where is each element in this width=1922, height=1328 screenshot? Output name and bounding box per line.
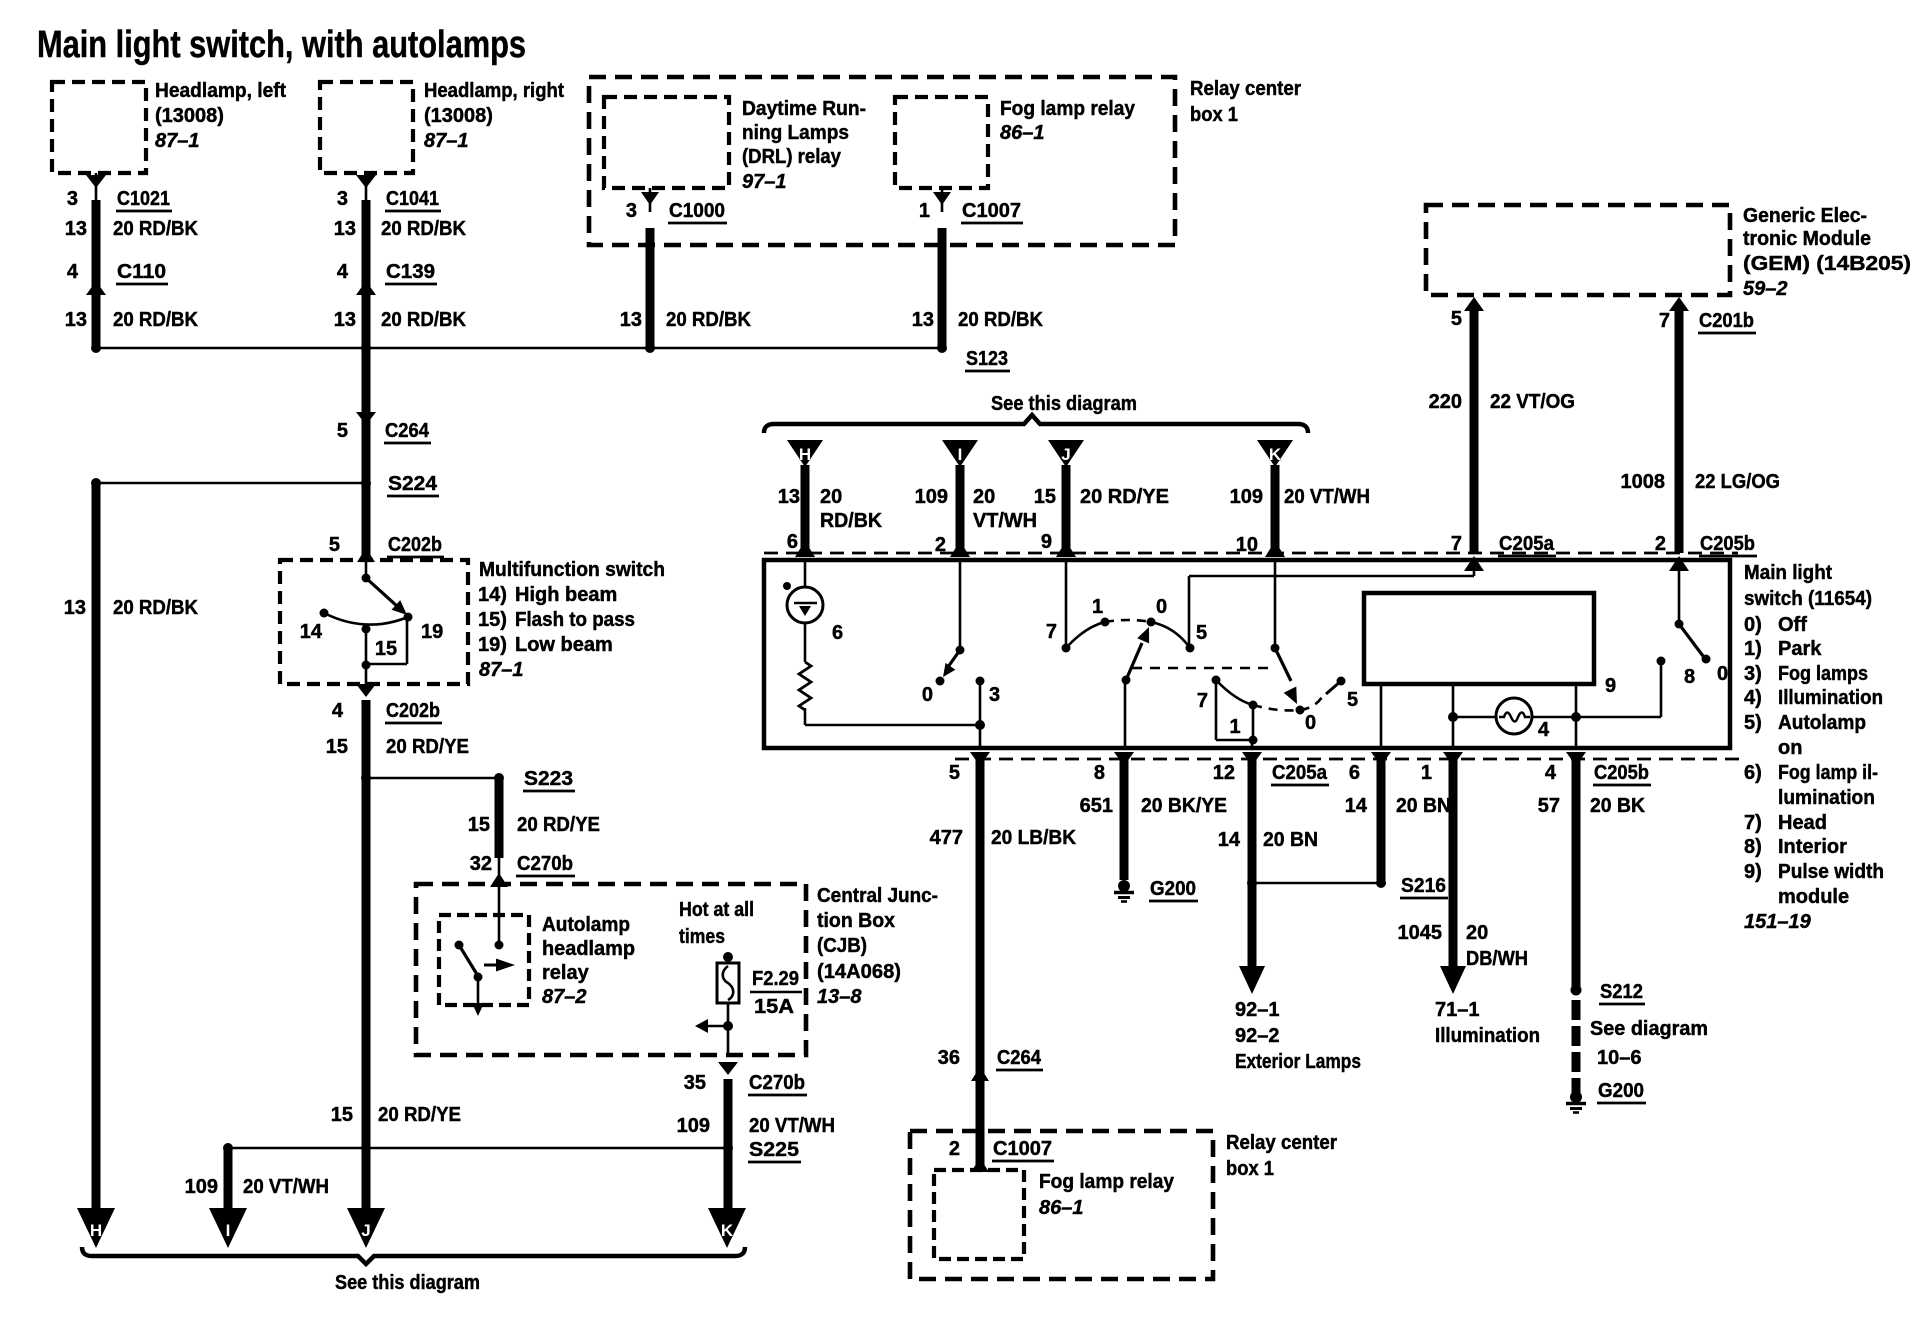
svg-text:Multifunction switch: Multifunction switch	[479, 559, 665, 581]
svg-text:7: 7	[1659, 310, 1670, 332]
svg-text:switch (11654): switch (11654)	[1744, 588, 1872, 610]
svg-text:S224: S224	[388, 473, 438, 495]
svg-text:G200: G200	[1598, 1080, 1644, 1102]
svg-text:22 VT/OG: 22 VT/OG	[1490, 391, 1575, 413]
svg-text:20 VT/WH: 20 VT/WH	[749, 1115, 835, 1137]
svg-text:Exterior Lamps: Exterior Lamps	[1235, 1051, 1361, 1073]
svg-text:(DRL) relay: (DRL) relay	[742, 146, 842, 168]
svg-text:151–19: 151–19	[1744, 911, 1812, 933]
svg-text:5: 5	[329, 534, 340, 556]
svg-text:59–2: 59–2	[1743, 278, 1788, 300]
svg-text:86–1: 86–1	[1000, 122, 1045, 144]
svg-text:Park: Park	[1778, 638, 1822, 660]
svg-text:15): 15)	[478, 609, 507, 631]
svg-text:J: J	[1061, 445, 1070, 464]
svg-text:87–2: 87–2	[542, 986, 587, 1008]
svg-text:H: H	[90, 1221, 102, 1240]
svg-text:1008: 1008	[1621, 471, 1666, 493]
svg-text:J: J	[361, 1221, 370, 1240]
svg-text:Hot at all: Hot at all	[679, 899, 754, 921]
svg-text:20: 20	[973, 486, 995, 508]
svg-text:ning Lamps: ning Lamps	[742, 122, 849, 144]
svg-text:9): 9)	[1744, 861, 1762, 883]
svg-text:13: 13	[778, 486, 800, 508]
svg-text:20: 20	[820, 486, 842, 508]
svg-text:9: 9	[1605, 675, 1616, 697]
svg-text:19): 19)	[478, 634, 507, 656]
svg-text:Daytime Run-: Daytime Run-	[742, 98, 866, 120]
svg-text:15: 15	[375, 638, 397, 660]
svg-text:RD/BK: RD/BK	[820, 510, 883, 532]
svg-text:Relay center: Relay center	[1190, 78, 1301, 100]
svg-text:20 BK/YE: 20 BK/YE	[1141, 795, 1227, 817]
svg-text:20 RD/YE: 20 RD/YE	[1080, 486, 1169, 508]
svg-text:S123: S123	[966, 348, 1008, 370]
svg-text:C201b: C201b	[1699, 310, 1754, 332]
svg-text:14: 14	[300, 621, 323, 643]
svg-text:20 BN: 20 BN	[1396, 795, 1451, 817]
svg-text:Off: Off	[1778, 614, 1807, 636]
svg-text:relay: relay	[542, 962, 590, 984]
svg-text:Head: Head	[1778, 812, 1827, 834]
svg-text:Main light: Main light	[1744, 562, 1832, 584]
svg-text:2: 2	[949, 1138, 960, 1160]
svg-text:19: 19	[421, 621, 443, 643]
svg-text:6: 6	[1349, 762, 1360, 784]
svg-text:57: 57	[1538, 795, 1560, 817]
svg-text:Illumination: Illumination	[1435, 1025, 1540, 1047]
svg-text:651: 651	[1080, 795, 1113, 817]
svg-text:Main light switch, with autola: Main light switch, with autolamps	[37, 24, 526, 66]
svg-text:on: on	[1778, 737, 1802, 759]
svg-text:36: 36	[938, 1047, 960, 1069]
svg-text:times: times	[679, 926, 725, 948]
svg-text:1045: 1045	[1398, 922, 1443, 944]
svg-text:6: 6	[787, 531, 798, 553]
svg-text:Central Junc-: Central Junc-	[817, 885, 938, 907]
svg-text:6: 6	[832, 622, 843, 644]
svg-text:13: 13	[64, 597, 86, 619]
svg-text:Generic Elec-: Generic Elec-	[1743, 205, 1867, 227]
svg-text:20: 20	[1466, 922, 1488, 944]
svg-text:C205b: C205b	[1594, 762, 1649, 784]
svg-text:Fog lamp relay: Fog lamp relay	[1039, 1171, 1175, 1193]
svg-text:86–1: 86–1	[1039, 1197, 1084, 1219]
svg-text:1: 1	[1092, 596, 1103, 618]
svg-text:220: 220	[1429, 391, 1462, 413]
svg-text:8): 8)	[1744, 836, 1762, 858]
svg-text:0: 0	[1717, 663, 1728, 685]
svg-text:Pulse width: Pulse width	[1778, 861, 1884, 883]
svg-text:1): 1)	[1744, 638, 1762, 660]
svg-text:C1007: C1007	[993, 1138, 1052, 1160]
svg-text:14: 14	[1345, 795, 1368, 817]
svg-text:C1007: C1007	[962, 200, 1021, 222]
svg-text:0: 0	[922, 684, 933, 706]
svg-text:K: K	[721, 1221, 734, 1240]
svg-text:109: 109	[677, 1115, 710, 1137]
svg-text:4: 4	[1538, 719, 1550, 741]
svg-text:module: module	[1778, 886, 1849, 908]
svg-text:4: 4	[67, 261, 79, 283]
svg-text:3: 3	[626, 200, 637, 222]
svg-text:5: 5	[337, 420, 348, 442]
svg-text:0: 0	[1305, 712, 1316, 734]
svg-text:20 RD/YE: 20 RD/YE	[386, 736, 469, 758]
svg-text:Autolamp: Autolamp	[1778, 712, 1866, 734]
svg-text:Fog lamp relay: Fog lamp relay	[1000, 98, 1136, 120]
svg-text:1: 1	[1229, 716, 1240, 738]
svg-text:20 RD/BK: 20 RD/BK	[958, 309, 1044, 331]
svg-text:lumination: lumination	[1778, 787, 1875, 809]
svg-text:35: 35	[684, 1072, 706, 1094]
svg-text:7: 7	[1197, 690, 1208, 712]
svg-text:C205b: C205b	[1700, 533, 1755, 555]
svg-text:20 RD/BK: 20 RD/BK	[113, 309, 199, 331]
svg-text:F2.29: F2.29	[752, 968, 799, 990]
svg-text:Low beam: Low beam	[515, 634, 613, 656]
svg-text:109: 109	[915, 486, 948, 508]
svg-text:97–1: 97–1	[742, 171, 787, 193]
svg-text:8: 8	[1094, 762, 1105, 784]
svg-text:109: 109	[1230, 486, 1263, 508]
svg-text:20 RD/BK: 20 RD/BK	[113, 597, 199, 619]
svg-text:15A: 15A	[754, 996, 794, 1018]
svg-text:Fog lamp il-: Fog lamp il-	[1778, 762, 1878, 784]
svg-text:S216: S216	[1401, 875, 1446, 897]
svg-text:20 RD/BK: 20 RD/BK	[381, 309, 467, 331]
svg-text:tion Box: tion Box	[817, 910, 895, 932]
svg-text:9: 9	[1041, 531, 1052, 553]
svg-text:13: 13	[912, 309, 934, 331]
svg-text:Flash to pass: Flash to pass	[515, 609, 635, 631]
svg-text:1: 1	[919, 200, 930, 222]
svg-text:K: K	[1269, 445, 1282, 464]
svg-text:4: 4	[332, 700, 344, 722]
svg-text:7: 7	[1046, 621, 1057, 643]
svg-text:13: 13	[65, 218, 87, 240]
svg-text:20 RD/YE: 20 RD/YE	[517, 814, 600, 836]
svg-text:6): 6)	[1744, 762, 1762, 784]
svg-text:G200: G200	[1150, 878, 1196, 900]
svg-text:5: 5	[1196, 622, 1207, 644]
svg-text:92–2: 92–2	[1235, 1025, 1280, 1047]
svg-text:(GEM) (14B205): (GEM) (14B205)	[1743, 253, 1911, 275]
svg-text:5): 5)	[1744, 712, 1762, 734]
svg-text:87–1: 87–1	[479, 659, 524, 681]
svg-text:C1021: C1021	[117, 188, 170, 210]
svg-text:headlamp: headlamp	[542, 938, 635, 960]
svg-text:32: 32	[470, 853, 492, 875]
svg-text:Interior: Interior	[1778, 836, 1847, 858]
svg-text:87–1: 87–1	[424, 130, 469, 152]
svg-text:20 BN: 20 BN	[1263, 829, 1318, 851]
svg-text:20 RD/BK: 20 RD/BK	[666, 309, 752, 331]
svg-text:box 1: box 1	[1226, 1158, 1274, 1180]
svg-text:See this diagram: See this diagram	[991, 393, 1137, 415]
svg-text:15: 15	[326, 736, 348, 758]
svg-text:C1000: C1000	[669, 200, 725, 222]
svg-text:See this diagram: See this diagram	[335, 1272, 480, 1294]
svg-text:92–1: 92–1	[1235, 999, 1280, 1021]
svg-text:3: 3	[67, 188, 78, 210]
svg-text:10–6: 10–6	[1597, 1047, 1642, 1069]
svg-text:S225: S225	[749, 1139, 799, 1161]
svg-text:20 RD/BK: 20 RD/BK	[113, 218, 199, 240]
svg-text:3: 3	[989, 684, 1000, 706]
svg-text:8: 8	[1684, 666, 1695, 688]
svg-text:Relay center: Relay center	[1226, 1132, 1337, 1154]
svg-text:4: 4	[1545, 762, 1557, 784]
svg-text:4: 4	[337, 261, 349, 283]
svg-text:I: I	[958, 445, 963, 464]
svg-text:3: 3	[337, 188, 348, 210]
svg-text:7): 7)	[1744, 812, 1762, 834]
svg-text:13: 13	[620, 309, 642, 331]
svg-text:20 VT/WH: 20 VT/WH	[1284, 486, 1370, 508]
svg-text:VT/WH: VT/WH	[973, 510, 1037, 532]
svg-text:13: 13	[65, 309, 87, 331]
svg-text:3): 3)	[1744, 663, 1762, 685]
svg-text:C1041: C1041	[386, 188, 439, 210]
svg-text:13–8: 13–8	[817, 986, 862, 1008]
svg-text:0): 0)	[1744, 614, 1762, 636]
svg-text:15: 15	[331, 1104, 353, 1126]
svg-text:(13008): (13008)	[424, 105, 493, 127]
svg-text:(CJB): (CJB)	[817, 935, 867, 957]
svg-text:14): 14)	[478, 584, 507, 606]
svg-text:20 BK: 20 BK	[1590, 795, 1646, 817]
svg-text:87–1: 87–1	[155, 130, 200, 152]
svg-text:477: 477	[930, 827, 963, 849]
svg-text:C139: C139	[386, 261, 435, 283]
svg-text:4): 4)	[1744, 687, 1762, 709]
svg-text:13: 13	[334, 218, 356, 240]
svg-text:H: H	[799, 445, 811, 464]
svg-text:Illumination: Illumination	[1778, 687, 1883, 709]
svg-text:15: 15	[1034, 486, 1056, 508]
svg-text:S223: S223	[524, 768, 573, 790]
svg-text:(14A068): (14A068)	[817, 961, 901, 983]
svg-text:Headlamp, left: Headlamp, left	[155, 80, 286, 102]
svg-text:Autolamp: Autolamp	[542, 914, 630, 936]
svg-text:C264: C264	[385, 420, 430, 442]
svg-text:5: 5	[949, 762, 960, 784]
svg-text:0: 0	[1156, 596, 1167, 618]
svg-text:C202b: C202b	[388, 534, 442, 556]
svg-text:20 VT/WH: 20 VT/WH	[243, 1176, 329, 1198]
svg-text:Fog lamps: Fog lamps	[1778, 663, 1868, 685]
svg-text:I: I	[226, 1221, 231, 1240]
svg-text:71–1: 71–1	[1435, 999, 1480, 1021]
svg-text:C205a: C205a	[1272, 762, 1328, 784]
svg-text:C202b: C202b	[386, 700, 440, 722]
svg-text:C270b: C270b	[749, 1072, 805, 1094]
svg-text:13: 13	[334, 309, 356, 331]
svg-text:C110: C110	[117, 261, 166, 283]
svg-text:S212: S212	[1600, 981, 1643, 1003]
svg-text:20 RD/BK: 20 RD/BK	[381, 218, 467, 240]
svg-text:20 RD/YE: 20 RD/YE	[378, 1104, 461, 1126]
svg-text:12: 12	[1213, 762, 1235, 784]
svg-text:DB/WH: DB/WH	[1466, 948, 1528, 970]
svg-text:C270b: C270b	[517, 853, 573, 875]
svg-text:(13008): (13008)	[155, 105, 224, 127]
svg-text:22 LG/OG: 22 LG/OG	[1695, 471, 1780, 493]
svg-text:5: 5	[1347, 689, 1358, 711]
svg-text:tronic Module: tronic Module	[1743, 228, 1871, 250]
svg-text:109: 109	[185, 1176, 218, 1198]
svg-text:15: 15	[468, 814, 490, 836]
svg-text:1: 1	[1421, 762, 1432, 784]
svg-text:box 1: box 1	[1190, 104, 1238, 126]
svg-text:High beam: High beam	[515, 584, 617, 606]
svg-text:14: 14	[1218, 829, 1241, 851]
svg-text:Headlamp, right: Headlamp, right	[424, 80, 564, 102]
svg-text:C264: C264	[997, 1047, 1042, 1069]
svg-text:See diagram: See diagram	[1590, 1018, 1708, 1040]
svg-text:5: 5	[1451, 308, 1462, 330]
svg-text:20 LB/BK: 20 LB/BK	[991, 827, 1077, 849]
